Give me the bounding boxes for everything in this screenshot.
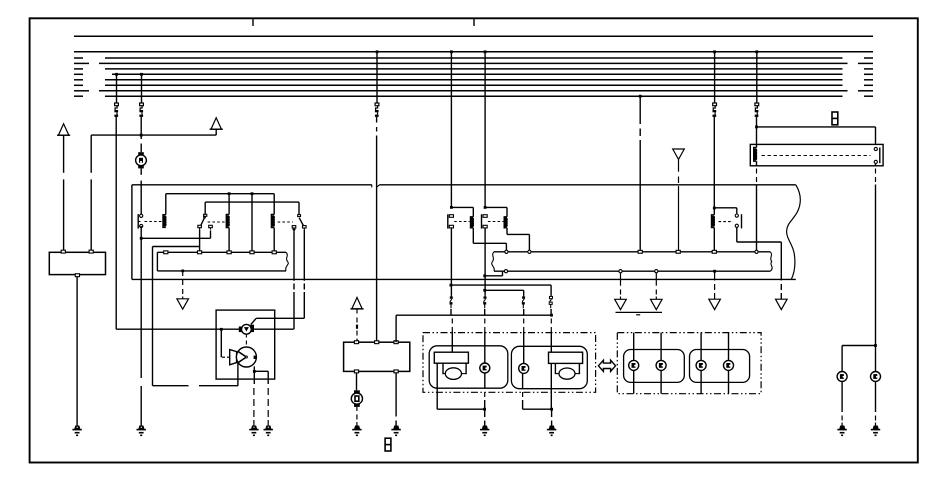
bus line 5 right stub	[864, 68, 873, 70]
wire x141 motor to switch	[140, 168, 142, 174]
relay R4 switch terminal b	[735, 224, 738, 227]
lamp small R	[519, 363, 529, 373]
wire x254 down	[253, 371, 255, 384]
wire x254 dash	[253, 388, 255, 395]
wire R3 botL down	[293, 231, 295, 280]
relay R2 blade	[201, 217, 205, 225]
relay K1 coil	[754, 148, 757, 162]
connector marker D2	[832, 112, 838, 125]
bus line 7 right stub	[864, 79, 873, 81]
relay R1 switch terminal b	[140, 224, 143, 227]
strip pin 12	[619, 270, 622, 273]
wire R4 coil wire	[713, 208, 715, 215]
wire feed x484	[484, 52, 486, 208]
ground G8	[549, 426, 554, 429]
bulb L reflector	[434, 352, 468, 363]
bus line 4 main	[99, 62, 848, 64]
relay R2 bottom terminal L	[198, 225, 202, 227]
connector C4	[550, 296, 553, 298]
strip pin 5	[272, 251, 276, 254]
frame tick 2	[473, 19, 475, 26]
connector marker D1	[385, 438, 391, 451]
wire bulb L exit	[436, 363, 438, 388]
wire y329 horizontal	[116, 328, 294, 330]
wire x781 down	[780, 242, 782, 281]
pin U1-3	[75, 274, 79, 277]
node J10	[755, 126, 758, 129]
relay R1 dashed link	[145, 221, 162, 223]
headlamp group box H1	[423, 333, 596, 393]
relay R4 dashed link	[719, 221, 734, 223]
component box U1	[49, 252, 105, 274]
lamp small 1	[629, 360, 639, 370]
bulb L ellipse line	[443, 373, 445, 375]
bus line 1	[74, 35, 873, 37]
relay R2 coil	[226, 215, 229, 228]
wire lamp feed 3	[523, 309, 525, 316]
strip pin 4	[250, 251, 254, 254]
wire pin12 down	[620, 273, 622, 286]
bus line 9 right stub	[858, 90, 873, 92]
horn funnel	[230, 350, 237, 365]
wire strip ground dashed	[182, 272, 184, 276]
wire relay R4 top link	[714, 207, 737, 209]
bus line 8 left stub	[74, 84, 83, 86]
wire x141 to junction	[140, 117, 142, 135]
junction strip right torn left edge	[492, 252, 495, 271]
wire U1 to ground	[76, 277, 78, 426]
relay block box top edge	[132, 184, 372, 186]
bus line 10 main	[105, 95, 843, 97]
relay R4 blade	[741, 214, 743, 228]
bus line 6 left stub	[74, 73, 83, 75]
connector F5	[755, 103, 759, 106]
relay B switch terminal a	[483, 215, 487, 218]
wire x377 long	[376, 136, 378, 343]
relay B dashed link	[488, 221, 504, 223]
wire T6 down	[678, 159, 680, 171]
wire x152 down	[152, 247, 154, 386]
wire motor B1 dash	[356, 407, 358, 411]
relay A switch terminal b	[449, 225, 453, 228]
wire coil A bottom	[472, 228, 474, 244]
wire x116 down	[115, 117, 117, 329]
wire arrow A1 down	[63, 135, 65, 173]
ground marker T4	[651, 299, 663, 309]
wire relay A bottom	[450, 228, 452, 296]
wire feed x640 lower	[639, 140, 641, 252]
wire lamp small L down	[484, 373, 486, 389]
wire lamp feed 4	[550, 309, 552, 315]
node J15 strip bottom	[181, 270, 184, 273]
wire x377 dash	[376, 117, 378, 123]
bus line 4 left stub	[74, 62, 89, 64]
wire pin J16 down	[714, 273, 716, 281]
wire U2 right pin up	[395, 315, 397, 342]
wire y385 horizontal	[153, 385, 189, 387]
wire lamp L to relay	[875, 346, 877, 372]
relay R1 coil	[163, 215, 166, 228]
node J22	[483, 289, 486, 292]
tail lamp R	[871, 372, 881, 382]
wire pin13 down	[655, 273, 657, 286]
wire x757 into relay	[756, 127, 758, 148]
junction strip left torn edge	[286, 252, 289, 271]
bus line 5 main	[105, 68, 843, 70]
node J-relayA	[450, 206, 453, 209]
bus line 5 left stub	[74, 68, 83, 70]
pin U2-4	[354, 370, 358, 373]
lamp small 4	[724, 360, 734, 370]
wire lamp 1	[633, 333, 635, 394]
bus line 3 main	[105, 57, 843, 59]
strip pin 3	[227, 251, 231, 254]
strip pin 10	[712, 250, 716, 253]
strip pin 6	[505, 250, 508, 253]
relay B switch terminal b	[483, 225, 487, 228]
node J24	[550, 408, 553, 411]
node J4 on bus line 2	[376, 50, 379, 53]
wire lamp feed 2	[484, 309, 486, 316]
node J20	[450, 284, 453, 287]
bulb R ellipse line	[555, 373, 559, 375]
wire y202 link	[205, 201, 299, 203]
wire y193 corner down	[273, 194, 275, 215]
bus line 9 main	[99, 90, 848, 92]
relay R3 top terminal	[298, 215, 301, 217]
horn wedge	[238, 351, 247, 363]
node J5 on bus line 2	[450, 50, 453, 53]
ground G1	[75, 426, 80, 429]
bulb L ellipse	[445, 368, 461, 380]
strip pin 8	[638, 250, 642, 253]
wire M3 dashes down	[245, 335, 247, 338]
wire horn right down	[253, 366, 255, 371]
node J-relayB	[484, 206, 487, 209]
wire arrow A2 stem	[215, 129, 217, 135]
wire J18 branch	[254, 370, 268, 372]
node J11	[228, 192, 231, 195]
bulb R reflector	[549, 352, 583, 363]
wire J17 dash to horn	[222, 356, 225, 358]
ground G3	[266, 426, 271, 429]
wire feed x640 dash	[639, 129, 641, 137]
motor B1	[354, 390, 360, 394]
relay R3 blade	[299, 218, 303, 226]
wire coil R1 top	[165, 194, 167, 215]
off-page arrow A2	[211, 118, 221, 129]
bus line 8 main	[105, 84, 843, 86]
wire feed x640 upper	[639, 96, 641, 124]
horn circle	[236, 347, 256, 367]
node J9 on bus line 2	[755, 50, 758, 53]
wire feed x141	[141, 74, 143, 103]
relay A switch blade	[447, 214, 449, 228]
ground marker T1	[776, 299, 788, 309]
pin U2-1	[354, 341, 358, 344]
wire J17 down	[220, 329, 222, 357]
node J3	[140, 134, 143, 137]
wire branch y290	[485, 289, 524, 291]
connector F2	[140, 103, 144, 106]
wire jog to pin6	[485, 275, 503, 277]
relay B switch blade	[481, 214, 483, 228]
motor M1	[138, 152, 144, 156]
bus line 9 left stub	[74, 90, 89, 92]
wire R4 bottom	[736, 228, 738, 242]
node J18	[253, 370, 256, 373]
ground G4	[252, 426, 257, 429]
wire relay B bottom	[484, 228, 486, 296]
bulb R socket	[555, 363, 579, 374]
node J21	[483, 274, 486, 277]
wire y318 horizontal	[256, 317, 304, 319]
strip pin 7	[528, 250, 531, 253]
relay K1 switch terminal a	[874, 147, 877, 150]
off-page arrow A3	[352, 298, 362, 309]
ground G5	[355, 426, 360, 429]
pin U2-2	[375, 341, 379, 344]
relay A dashed link	[454, 221, 470, 223]
wire y193.7 bus	[166, 193, 274, 195]
wire x141 lower	[140, 238, 142, 376]
bus line 10 left stub	[74, 95, 83, 97]
lamp small 2	[656, 360, 666, 370]
from-page marker T6	[673, 149, 685, 159]
wire x875 down to relay	[875, 127, 877, 144]
relay R1 switch blade	[137, 214, 139, 229]
relay block torn right edge	[787, 185, 801, 280]
wire lamp 2	[660, 333, 662, 394]
pin U1-2	[89, 250, 93, 253]
wire bracket R left	[522, 374, 524, 389]
node J8 on bus line 2	[713, 50, 716, 53]
bus line 7 main	[105, 79, 843, 81]
wire y135 horizontal	[91, 134, 216, 136]
wire x91 down	[90, 135, 92, 173]
wire branch y285	[451, 284, 551, 286]
junction strip right part	[494, 251, 770, 253]
node J7 on bus line 10	[639, 95, 642, 98]
bus line 8 right stub	[864, 84, 873, 86]
strip pin 13	[655, 270, 658, 273]
node J16 strip bottom	[713, 270, 716, 273]
wire bracket L left	[436, 388, 438, 409]
connector C3	[522, 296, 525, 298]
bus line 3 left stub	[74, 57, 83, 59]
node J1 on bus line 6	[115, 73, 118, 76]
wire feed x116	[116, 74, 118, 103]
wire branch y127	[757, 126, 876, 128]
junction strip right torn right edge	[770, 252, 772, 271]
wire R3 botR down	[303, 230, 305, 281]
strip pin 11	[755, 250, 758, 253]
wire lamp 4	[728, 333, 730, 394]
wire feed x451	[450, 52, 452, 208]
relay box K1	[750, 144, 883, 165]
headlamp unit shell R	[511, 346, 587, 388]
wire relay R3 top stem	[298, 202, 300, 214]
bus line 4 right stub	[858, 62, 873, 64]
wire x714 down	[713, 117, 715, 208]
relay R2 bottom terminal R	[209, 225, 213, 227]
relay R1 blade tick	[138, 221, 140, 223]
wire tail R down	[875, 382, 877, 413]
headlamp unit shell RL	[624, 350, 685, 383]
wire U2-5 down	[395, 373, 397, 417]
relay A coil	[471, 217, 474, 228]
wire A3 dashed stem	[356, 309, 358, 314]
ground marker T2	[177, 299, 189, 309]
connector F1	[115, 103, 119, 106]
wire feed x377	[376, 52, 378, 103]
ground G9	[840, 426, 845, 429]
bus line 7 left stub	[74, 79, 83, 81]
pin U2-3	[394, 341, 398, 344]
wire bulb R exit	[550, 363, 552, 388]
ground marker T5	[709, 299, 721, 309]
node J25	[874, 344, 877, 347]
pin U1-1	[61, 250, 65, 253]
relay R3 bottom terminal L	[292, 226, 296, 228]
relay R2 top terminal	[204, 214, 207, 216]
connector F4	[713, 103, 717, 106]
lamp small 3	[696, 360, 706, 370]
wire U2-4 to motor	[356, 373, 358, 390]
relay K1 switch terminal b	[874, 160, 877, 163]
wire x252 down	[251, 194, 253, 251]
wire R2 branch left	[153, 246, 200, 248]
wire y315 horizontal	[396, 314, 551, 316]
wire lamp feed 1	[450, 309, 452, 316]
wire coil R2 top	[228, 194, 230, 215]
motor M3 diagonal	[251, 318, 256, 324]
washer motor M3	[239, 327, 243, 333]
connector C1	[450, 296, 453, 298]
wire K1 coil bottom	[756, 161, 758, 166]
wire branch y345	[842, 345, 875, 347]
node J12	[251, 192, 254, 195]
node J19	[550, 314, 553, 317]
wire relay R2 top stem	[204, 202, 206, 214]
relay R4 switch terminal a	[735, 214, 738, 217]
wire R2 botL down	[199, 230, 201, 251]
module box M2	[216, 310, 275, 379]
wire y238 to relay R2	[141, 237, 210, 239]
relay R3 coil	[271, 215, 274, 228]
control box U2	[344, 342, 410, 371]
headlamp unit shell L	[429, 346, 508, 388]
pin U2-5	[394, 370, 398, 373]
junction strip left part	[157, 251, 286, 253]
wire K1 switch bottom	[875, 164, 877, 166]
ground G2	[139, 426, 144, 429]
ground marker T3	[615, 299, 627, 309]
strip pin 1	[164, 251, 168, 254]
relay K1 blade	[879, 148, 881, 164]
strip pin 2	[198, 251, 202, 254]
wire x757 to branch	[756, 117, 758, 127]
relay A top link	[451, 206, 473, 208]
relay R3 dashed link	[278, 221, 293, 223]
wire horn left down	[237, 363, 239, 386]
bus line 10 right stub	[864, 95, 873, 97]
node J13	[140, 237, 143, 240]
bus line 6 main	[112, 73, 843, 75]
box edge hop marks	[372, 185, 380, 188]
relay B top link	[485, 206, 507, 208]
off-page arrow A1	[58, 124, 68, 135]
connector C2	[484, 296, 487, 298]
wire feed x757	[756, 52, 758, 103]
node J23	[483, 408, 486, 411]
wire coil R3 bottom	[273, 228, 275, 251]
wire R1 bottom	[140, 226, 142, 238]
headlamp unit shell RR	[690, 350, 750, 383]
bus line 6 right stub	[864, 73, 873, 75]
wire tail L down	[841, 382, 843, 413]
wire x141 to motor	[140, 135, 142, 139]
horn right tab	[254, 356, 257, 359]
node J14	[713, 207, 716, 210]
ground G6	[394, 426, 399, 429]
frame tick 1	[252, 19, 254, 26]
relay block left edge	[131, 185, 133, 280]
wire feed x714	[714, 52, 716, 103]
wire lamp 3	[700, 333, 702, 394]
wire x268 dash	[267, 388, 269, 395]
ground bar under T3 T4	[616, 311, 663, 313]
node J2 on bus line 6	[140, 73, 143, 76]
wire bulb R to ground	[550, 389, 552, 410]
relay A switch terminal a	[449, 215, 453, 218]
relay R2 dashed link	[208, 221, 226, 223]
node J6 on bus line 2	[484, 50, 487, 53]
headlamp group box H2	[617, 333, 761, 394]
bus line 2	[74, 51, 873, 53]
wire coil R2 bottom	[228, 228, 230, 251]
wire to ground G7	[484, 409, 486, 417]
connector F3	[375, 103, 379, 106]
ground G10	[873, 426, 878, 429]
bus line 3 right stub	[864, 57, 873, 59]
relay R3 bottom terminal R	[303, 226, 307, 228]
lamp small L	[480, 363, 490, 373]
wire coil B bottom	[506, 228, 508, 235]
relay B coil	[504, 217, 507, 228]
equivalence arrow	[598, 360, 615, 371]
relay R4 coil	[712, 215, 715, 228]
node J17	[220, 328, 223, 331]
bulb R ellipse	[559, 368, 575, 379]
tail lamp L	[837, 372, 847, 382]
ground G7	[482, 426, 487, 429]
relay R1 switch terminal a	[140, 214, 143, 217]
relay block bottom edge	[132, 278, 796, 280]
strip pin 9	[676, 250, 680, 253]
relay K1 dashed link	[762, 155, 871, 157]
bulb L socket	[443, 363, 466, 374]
